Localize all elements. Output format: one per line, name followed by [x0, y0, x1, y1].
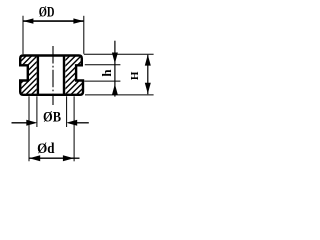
svg-text:Ød: Ød — [37, 141, 54, 157]
svg-text:h: h — [99, 69, 114, 77]
svg-text:ØD: ØD — [39, 5, 55, 21]
svg-text:H: H — [129, 71, 141, 80]
svg-text:ØB: ØB — [43, 110, 61, 126]
